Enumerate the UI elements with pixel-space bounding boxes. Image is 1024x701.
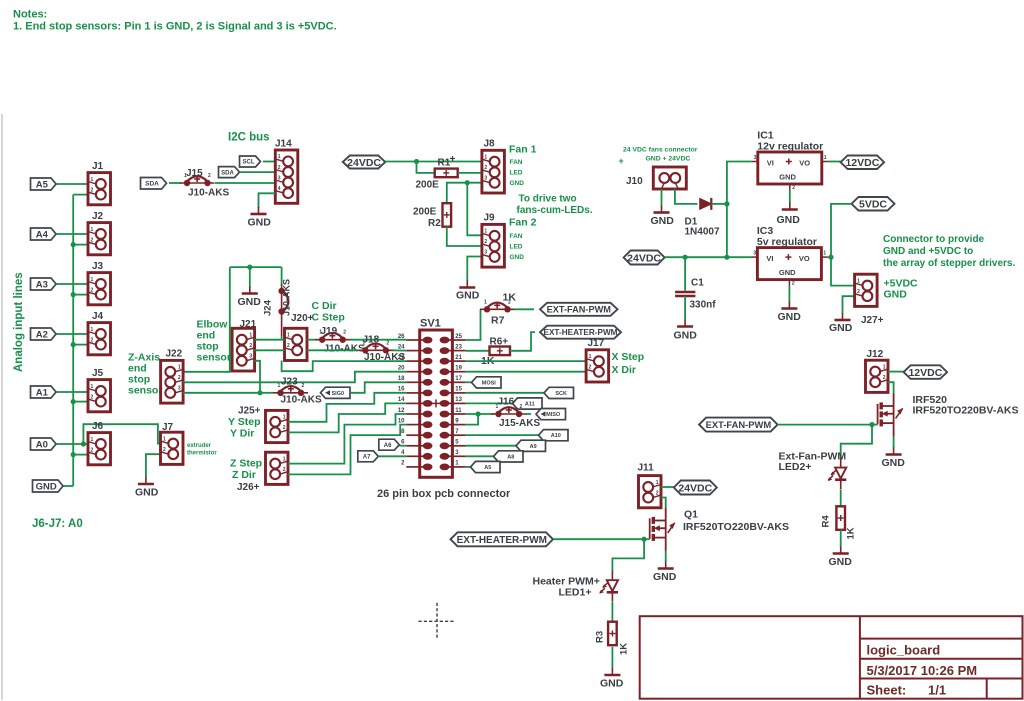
svg-text:J21: J21 <box>240 319 257 330</box>
net flag EXT-FAN-PWM 2 <box>699 418 778 432</box>
svg-text:GND: GND <box>456 290 480 302</box>
svg-text:1: 1 <box>178 365 181 371</box>
wire J16 out <box>526 413 532 415</box>
svg-text:GND: GND <box>779 173 796 182</box>
connector J22 <box>161 360 184 403</box>
wire EXT-FAN-PWM to gate <box>778 424 872 426</box>
svg-text:19: 19 <box>455 366 462 372</box>
wire gate to LED1 <box>612 539 644 571</box>
wire SV1 pin21 to J17 pin1 <box>466 360 586 362</box>
svg-text:1: 1 <box>283 456 286 462</box>
supply flag 24VDC J11 <box>674 481 717 495</box>
net flag A6 <box>379 439 400 450</box>
junction Q2 gate <box>869 422 874 427</box>
wire J20 to J19 <box>307 339 317 341</box>
svg-text:J3: J3 <box>92 261 104 272</box>
net flag SCK <box>544 387 574 398</box>
svg-text:A5: A5 <box>484 465 491 471</box>
resistor R1 <box>435 169 458 178</box>
svg-text:VI: VI <box>766 254 773 263</box>
svg-text:sensor: sensor <box>197 352 231 364</box>
svg-text:2: 2 <box>589 365 592 371</box>
svg-text:GND: GND <box>651 215 675 227</box>
svg-text:1: 1 <box>484 155 487 161</box>
wire sensor top <box>230 266 282 268</box>
ground under J27 <box>835 313 851 320</box>
net flag A5 <box>31 178 57 190</box>
svg-text:J4: J4 <box>92 311 104 322</box>
svg-text:J5: J5 <box>92 368 104 379</box>
svg-text:C Step: C Step <box>312 312 345 324</box>
ground under IC1 <box>782 203 798 210</box>
svg-text:EXT-FAN-PWM: EXT-FAN-PWM <box>547 305 612 315</box>
svg-text:GND: GND <box>238 296 262 308</box>
svg-text:GND: GND <box>829 322 853 334</box>
wire to ground <box>249 267 251 287</box>
wire J22 pin2 to SV1 pin20 <box>183 372 406 383</box>
svg-text:2: 2 <box>91 187 94 193</box>
svg-text:Q1: Q1 <box>684 509 698 521</box>
svg-text:IRF520TO220BV-AKS: IRF520TO220BV-AKS <box>913 405 1019 417</box>
svg-text:SDA: SDA <box>145 181 159 188</box>
svg-text:Sheet:: Sheet: <box>867 683 907 698</box>
connector J17 <box>586 350 609 382</box>
svg-text:GND: GND <box>778 311 802 323</box>
svg-text:GND + 24VDC: GND + 24VDC <box>646 156 691 163</box>
svg-text:1: 1 <box>91 384 94 390</box>
wire SV1 pin19 to J17 pin2 <box>466 371 586 373</box>
svg-text:FAN: FAN <box>510 233 523 240</box>
svg-text:SCK: SCK <box>555 391 567 397</box>
net flag A8 <box>494 451 524 462</box>
junction Q1 gate <box>642 537 647 542</box>
svg-text:1: 1 <box>91 177 94 183</box>
wire 5V to J27 pin1 <box>831 257 855 285</box>
wire gate stub <box>644 538 650 540</box>
svg-text:1: 1 <box>283 415 286 421</box>
svg-text:J6: J6 <box>92 421 104 432</box>
svg-text:A7: A7 <box>363 455 371 461</box>
svg-text:21: 21 <box>455 355 462 361</box>
wire Q2 source to ground <box>893 436 895 448</box>
net flag A2 <box>31 328 57 340</box>
connector J21 <box>232 328 255 371</box>
frame border left <box>1 114 3 700</box>
connector J9 <box>482 224 505 267</box>
net flag MISO <box>536 409 566 420</box>
svg-text:1: 1 <box>91 277 94 283</box>
svg-text:R2: R2 <box>428 218 441 229</box>
svg-text:J6-J7: A0: J6-J7: A0 <box>32 518 83 530</box>
svg-text:J8: J8 <box>484 139 496 150</box>
ground sensor <box>242 287 258 294</box>
svg-text:A0: A0 <box>36 439 48 450</box>
transistor Q1 <box>650 508 675 551</box>
wire GND flag to bus <box>63 485 73 487</box>
connector J8 <box>482 150 505 193</box>
svg-text:1: 1 <box>589 354 592 360</box>
wire 5V node to 5VDC flag <box>831 204 852 257</box>
svg-text:15: 15 <box>455 387 462 393</box>
LED LED2 <box>828 458 847 489</box>
wire A7 to SV1 pin4 <box>378 455 406 457</box>
wire SCL to J14 pin1 <box>263 161 275 163</box>
wire A5 to connector <box>53 183 88 185</box>
svg-text:J10-AKS: J10-AKS <box>188 188 229 199</box>
svg-text:5/3/2017 10:26 PM: 5/3/2017 10:26 PM <box>867 663 978 678</box>
svg-text:1: 1 <box>484 299 487 305</box>
wire J11 pin2 to Q1 drain <box>661 498 666 509</box>
svg-text:2: 2 <box>656 490 659 496</box>
svg-text:3: 3 <box>249 354 252 360</box>
connector J25 <box>266 410 289 442</box>
junction J23 input <box>257 390 262 395</box>
svg-text:J19: J19 <box>321 326 338 337</box>
wire A1 to connector <box>53 391 88 393</box>
wire IC1 GND <box>789 190 791 203</box>
wire J20 to J18 <box>307 349 358 351</box>
svg-text:Fan 1: Fan 1 <box>509 144 537 156</box>
svg-text:+: + <box>619 156 624 166</box>
wire A0 to connector <box>53 443 88 445</box>
wire Q1 source to ground <box>665 551 667 563</box>
wire bus to J4 pin2 <box>73 344 88 346</box>
wire SV1 pin5 <box>466 445 517 447</box>
svg-text:GND: GND <box>777 214 801 226</box>
voltage regulator IC1 <box>758 152 822 184</box>
svg-text:J11: J11 <box>638 463 655 474</box>
svg-text:1: 1 <box>656 480 659 486</box>
net flag SDA2 <box>219 167 240 178</box>
svg-text:2: 2 <box>484 165 487 171</box>
net flag EXT-HEATER-PWM <box>540 326 621 339</box>
svg-text:11: 11 <box>455 408 462 414</box>
wire EXT-HEATER-PWM to gate <box>553 538 644 540</box>
svg-text:A3: A3 <box>36 279 48 290</box>
svg-text:LED: LED <box>510 244 523 251</box>
svg-text:1K: 1K <box>846 527 857 539</box>
transistor Q2 <box>878 393 903 436</box>
svg-text:R7: R7 <box>491 315 505 327</box>
svg-text:A8: A8 <box>507 454 514 460</box>
svg-text:2: 2 <box>208 173 211 179</box>
wire 24VDC to J8 pin1 <box>385 161 482 163</box>
ground under J10 <box>654 206 670 213</box>
svg-text:Analog input lines: Analog input lines <box>13 272 25 372</box>
wire to J9 pin1 <box>467 183 482 236</box>
wire to J23 <box>260 392 274 394</box>
svg-text:3: 3 <box>178 386 181 392</box>
svg-text:SDA: SDA <box>221 170 234 176</box>
connector J10 <box>653 167 686 189</box>
svg-text:Z Dir: Z Dir <box>232 469 256 481</box>
wire LED2 to R4 <box>840 490 842 507</box>
supply flag 24VDC top <box>343 156 386 169</box>
wire J15 to J14 pin3 <box>215 182 275 184</box>
diode D1 <box>700 199 712 210</box>
title block frame <box>640 616 1023 699</box>
wire J19 to SV1 pin26 <box>350 339 407 341</box>
wire J10 pin2 to D1 <box>675 189 698 204</box>
wire SV1 pin13 <box>466 402 513 404</box>
svg-text:GND: GND <box>510 180 525 187</box>
svg-text:Fan 2: Fan 2 <box>509 217 537 229</box>
supply flag 12VDC <box>841 156 885 170</box>
svg-text:J2: J2 <box>92 211 104 222</box>
wire gate stub Q2 <box>872 424 878 426</box>
svg-text:1: 1 <box>484 229 487 235</box>
wire SV1 pin3 <box>466 455 494 457</box>
svg-text:the array of stepper drivers.: the array of stepper drivers. <box>883 258 1015 269</box>
svg-text:3: 3 <box>754 155 757 161</box>
svg-text:2: 2 <box>520 404 523 410</box>
junction J8 pin3 <box>465 180 470 185</box>
wire C1 to ground <box>684 296 686 320</box>
svg-text:22: 22 <box>398 355 405 361</box>
wire J7 pin2 to ground <box>146 454 161 477</box>
svg-text:J16: J16 <box>498 397 515 408</box>
wire R2 to J9 pin2 <box>447 227 482 246</box>
svg-text:EXT-HEATER-PWM: EXT-HEATER-PWM <box>457 535 547 546</box>
wire 24VDC to IC3 VI <box>665 256 752 258</box>
net flag A10 <box>539 430 569 441</box>
connector J5 <box>88 380 111 412</box>
svg-text:A9: A9 <box>530 444 537 450</box>
ground under C1 <box>677 320 693 327</box>
wire J21 pin1 to J20 pin1 <box>255 339 285 341</box>
ground under Q1 <box>658 562 674 569</box>
wire A0 to J7 pin1 <box>83 424 161 444</box>
net flag EXT-FAN-PWM <box>540 303 618 316</box>
wire J14 pin4 to ground <box>259 193 276 208</box>
wire R7 to EXT-FAN-PWM <box>514 308 534 310</box>
svg-text:A1: A1 <box>36 387 49 398</box>
wire to SV1 pin22 <box>282 361 407 372</box>
net flag A0 <box>31 438 57 450</box>
net flag A3 <box>31 278 57 290</box>
svg-text:J10: J10 <box>626 176 643 187</box>
svg-text:200E: 200E <box>416 180 440 191</box>
svg-text:3: 3 <box>484 176 487 182</box>
svg-text:2: 2 <box>278 165 281 171</box>
wire LED1 to R3 <box>611 602 613 622</box>
connector J12 <box>866 360 889 392</box>
svg-text:sensor: sensor <box>128 385 162 397</box>
svg-text:J27+: J27+ <box>861 315 884 326</box>
wire to IC1 VI <box>727 162 752 204</box>
svg-text:SV1: SV1 <box>420 318 441 330</box>
wire J21 pin3 down <box>255 361 260 393</box>
svg-text:FAN: FAN <box>510 159 523 166</box>
net flag A7 <box>358 451 379 462</box>
ground under Q2 <box>886 448 902 455</box>
svg-text:3: 3 <box>278 175 281 181</box>
svg-text:J10-AKS: J10-AKS <box>282 279 292 316</box>
jumper J24 <box>283 291 288 312</box>
svg-text:A6: A6 <box>384 443 392 449</box>
svg-text:LED: LED <box>510 170 523 177</box>
svg-text:1: 1 <box>823 251 826 257</box>
svg-text:GND: GND <box>510 254 525 261</box>
svg-text:10: 10 <box>398 418 405 424</box>
wire J8 pin3 to R2 <box>447 183 482 204</box>
svg-text:thermistor: thermistor <box>187 451 217 457</box>
ground under R4 <box>833 547 849 554</box>
svg-text:2: 2 <box>857 289 860 295</box>
svg-text:Notes:: Notes: <box>13 9 47 21</box>
svg-text:1: 1 <box>278 154 281 160</box>
wire R6 to EXT-HEATER-PWM <box>510 332 535 351</box>
svg-text:2: 2 <box>343 330 346 336</box>
svg-text:2: 2 <box>792 281 795 287</box>
svg-text:4: 4 <box>278 186 281 192</box>
resistor R2 <box>443 203 452 227</box>
ground under J14 <box>251 207 267 214</box>
svg-text:J9: J9 <box>484 213 496 224</box>
svg-text:J24: J24 <box>263 299 274 316</box>
wire A3 to connector <box>53 283 88 285</box>
svg-text:GND: GND <box>674 330 698 342</box>
svg-text:J26+: J26+ <box>237 482 260 493</box>
svg-text:18: 18 <box>398 376 405 382</box>
wire J10 pin1 to ground <box>661 189 663 206</box>
wire SV1 pin15 <box>466 392 545 394</box>
wire SV1 pin25 to R7 <box>466 309 481 340</box>
svg-text:1: 1 <box>857 278 860 284</box>
svg-text:J22: J22 <box>166 349 183 360</box>
junction <box>71 292 76 297</box>
junction <box>71 399 76 404</box>
svg-text:1: 1 <box>91 437 94 443</box>
svg-text:1/1: 1/1 <box>928 683 946 698</box>
svg-text:20: 20 <box>398 366 405 372</box>
svg-text:17: 17 <box>455 376 462 382</box>
wire SV1 pin23 to R6 <box>466 350 490 352</box>
svg-text:VI: VI <box>767 159 774 168</box>
net flag A11 <box>513 398 543 409</box>
connector J6 <box>88 433 111 465</box>
svg-text:A4: A4 <box>36 229 49 240</box>
svg-text:14: 14 <box>398 397 405 403</box>
svg-text:Y Dir: Y Dir <box>230 428 254 440</box>
svg-text:1: 1 <box>163 436 166 442</box>
ground under J7 <box>138 477 154 484</box>
ground under R3 <box>604 668 620 675</box>
origin crosshair <box>419 603 456 640</box>
wire J12 pin2 to Q2 drain <box>888 382 894 393</box>
svg-text:SCL: SCL <box>243 160 255 166</box>
svg-text:R6+: R6+ <box>490 337 509 348</box>
wire SV1 pin1 <box>466 466 471 468</box>
svg-text:2: 2 <box>302 383 305 389</box>
svg-text:GND: GND <box>600 678 624 690</box>
net flag A5r <box>471 461 501 472</box>
ground under IC3 <box>781 302 797 309</box>
net flag A1 <box>31 386 57 398</box>
svg-text:I2C bus: I2C bus <box>228 132 270 144</box>
svg-text:2: 2 <box>283 467 286 473</box>
wire to J24 <box>281 267 283 285</box>
svg-text:2: 2 <box>163 447 166 453</box>
wire J25 pin1 to SV1 pin16 <box>288 393 406 422</box>
svg-text:IRF520TO220BV-AKS: IRF520TO220BV-AKS <box>683 521 789 533</box>
jumper J23 <box>281 386 302 392</box>
svg-text:12VDC: 12VDC <box>845 157 879 169</box>
svg-text:5v regulator: 5v regulator <box>757 236 817 248</box>
svg-text:12: 12 <box>398 408 405 414</box>
svg-text:200E: 200E <box>413 207 437 218</box>
svg-text:2: 2 <box>484 239 487 245</box>
svg-text:C1: C1 <box>691 278 704 289</box>
connector J27 <box>855 274 878 306</box>
svg-text:To drive two: To drive two <box>519 194 577 205</box>
net flag SIG <box>321 387 351 398</box>
jumper J16 <box>499 407 520 413</box>
svg-text:1K: 1K <box>619 643 630 655</box>
jumper J18 <box>365 343 386 349</box>
svg-text:24VDC: 24VDC <box>347 157 381 169</box>
svg-text:GND: GND <box>135 487 159 499</box>
svg-text:fans-cum-LEDs.: fans-cum-LEDs. <box>517 205 593 216</box>
resistor R3 <box>608 622 617 646</box>
wire J23 to SV1 pin18 <box>350 382 406 393</box>
svg-text:24: 24 <box>398 344 405 350</box>
svg-text:1: 1 <box>824 155 827 161</box>
connector SV1 26-pin box header <box>406 330 466 477</box>
svg-text:3: 3 <box>484 250 487 256</box>
junction sensor gnd <box>247 265 252 270</box>
net flag GND <box>33 480 64 492</box>
connector J20 <box>285 328 308 360</box>
svg-text:2: 2 <box>287 343 290 349</box>
wire A4 to connector <box>53 233 88 235</box>
svg-text:16: 16 <box>398 387 405 393</box>
jumper J15 <box>187 176 208 182</box>
svg-text:1: 1 <box>91 327 94 333</box>
svg-text:VO: VO <box>799 254 810 263</box>
svg-text:X Dir: X Dir <box>612 364 637 376</box>
wire J11 pin1 to 24VDC <box>661 486 674 488</box>
wire SV1 pin7 <box>466 434 539 436</box>
svg-text:J18: J18 <box>363 335 380 346</box>
svg-text:J14: J14 <box>275 139 292 150</box>
svg-text:J12: J12 <box>867 349 884 360</box>
svg-text:SIG0: SIG0 <box>332 391 345 397</box>
junction pin11/pin9 <box>476 411 481 416</box>
svg-text:2: 2 <box>91 287 94 293</box>
svg-text:R4: R4 <box>821 515 832 528</box>
junction 24V rail <box>724 255 729 260</box>
svg-text:2: 2 <box>283 425 286 431</box>
svg-text:GND and +5VDC to: GND and +5VDC to <box>883 246 973 257</box>
net flag MOSI <box>472 377 502 388</box>
wire IC3 VO <box>827 256 831 258</box>
svg-text:GND: GND <box>248 217 272 229</box>
svg-text:Connector to provide: Connector to provide <box>883 234 985 245</box>
wire A6 to SV1 pin6 <box>399 445 406 447</box>
svg-text:R3: R3 <box>595 631 606 643</box>
wire GND bus <box>72 195 74 486</box>
svg-text:25: 25 <box>455 334 462 340</box>
junction 5V node <box>828 255 833 260</box>
svg-text:J20+: J20+ <box>291 313 314 324</box>
svg-text:5VDC: 5VDC <box>859 199 887 211</box>
connector J3 <box>88 273 111 305</box>
svg-text:13: 13 <box>455 397 462 403</box>
supply flag 12VDC J12 <box>904 365 948 379</box>
wire J26 pin2 to SV1 pin10 <box>288 425 406 475</box>
wire gate to LED2 <box>841 425 872 459</box>
